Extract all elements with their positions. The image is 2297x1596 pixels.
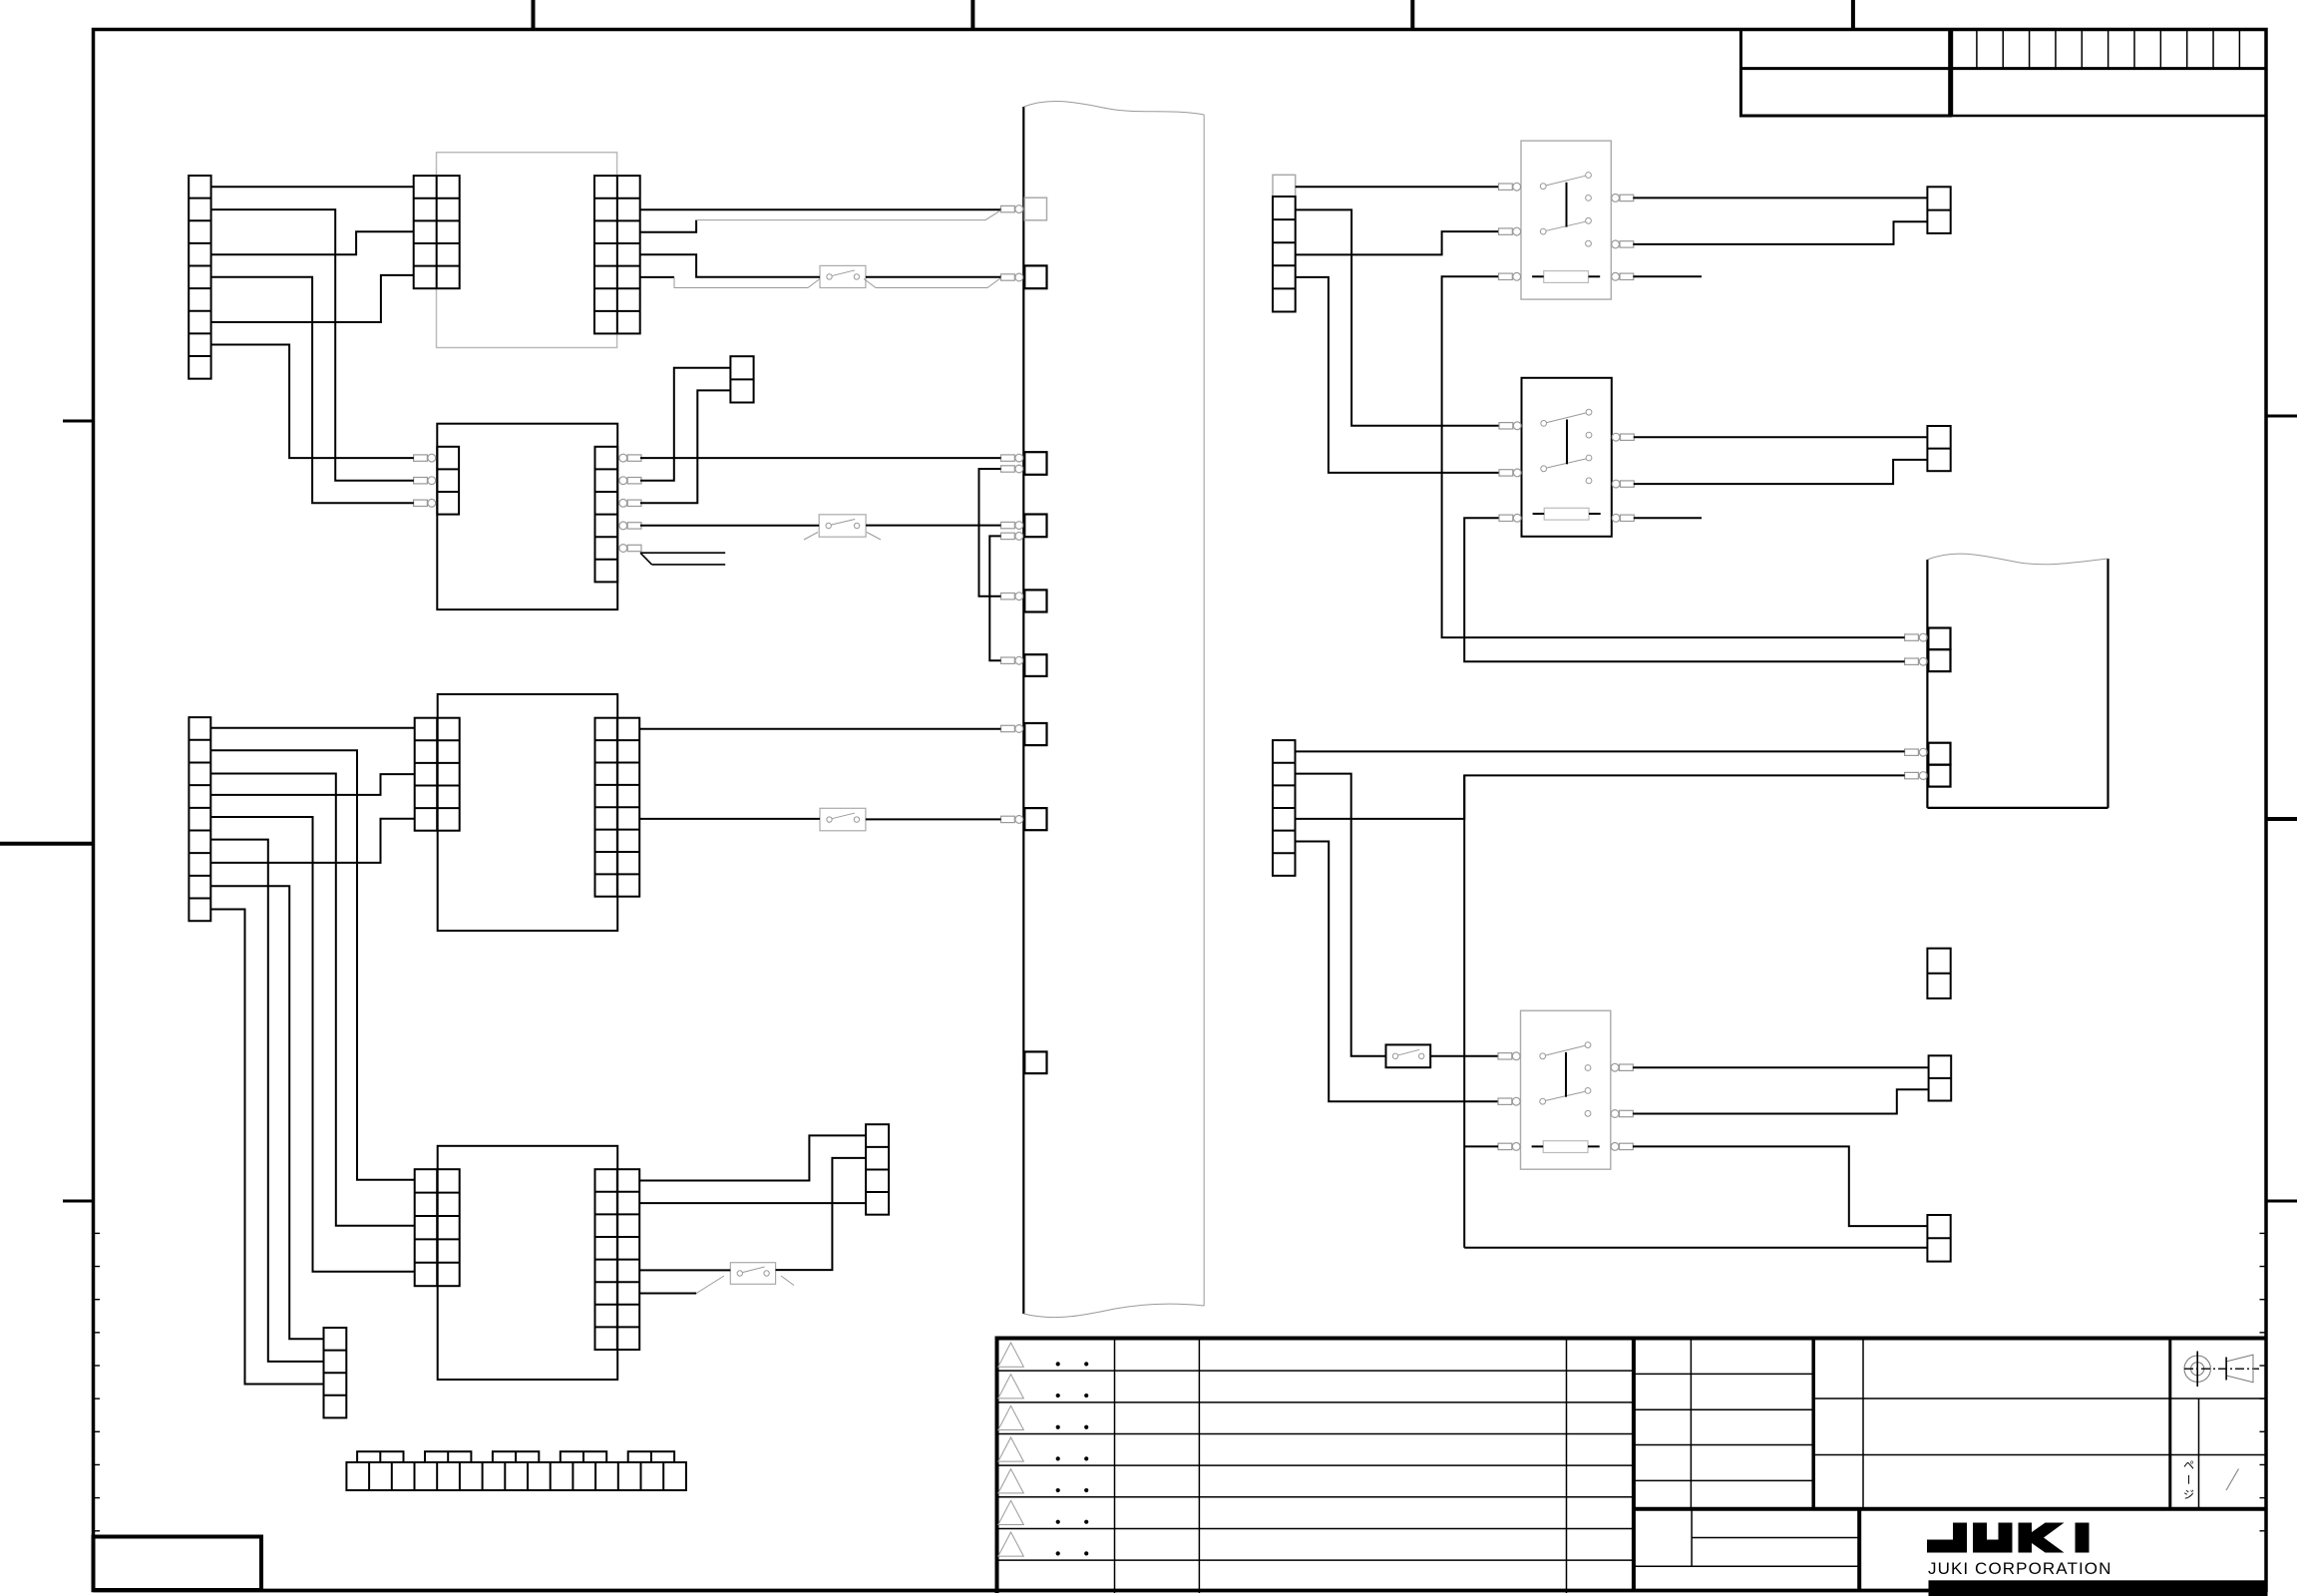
connector K1 (1x2)	[1927, 187, 1950, 233]
connector K2 (1x2)	[1927, 426, 1950, 471]
connector G (1x4)	[324, 1328, 347, 1417]
title section C row 2	[1634, 1565, 1859, 1567]
component B3 outline	[438, 694, 618, 931]
left tick center	[0, 842, 94, 846]
wire SA1.t3 to board pin u1	[1442, 276, 1905, 637]
connector B2-L pins (1x3)	[437, 447, 459, 515]
terminal B2 right t4	[619, 522, 627, 530]
wire B2.t4 to SW2	[640, 525, 819, 527]
terminal B2 right t2	[619, 477, 627, 485]
third-angle projection cone symbol	[2226, 1355, 2253, 1383]
revision date dots	[1056, 1362, 1060, 1366]
terminal SA1 right r3	[1612, 272, 1620, 280]
terminal SA2 right r3	[1612, 514, 1620, 522]
bus branch to SA3.t3	[1464, 1145, 1498, 1147]
shield wire gray right of SW-A	[864, 278, 1001, 288]
title section B row 2	[1813, 1454, 2266, 1456]
wire C2.8 down to G cell1	[210, 886, 323, 1339]
wire C2.4 jog to B3L cell3	[210, 774, 414, 795]
wire SA1.r3 stub	[1633, 275, 1702, 277]
wire C2.5 down to B5L cell5	[210, 817, 414, 1272]
bus branch to connector K5 bottom	[1464, 1247, 1927, 1249]
wire SA1.r1 to K1 top	[1633, 197, 1927, 199]
component B5 outline	[438, 1146, 618, 1380]
wire B2.t1 to pin p3a	[640, 457, 1001, 459]
wire col1.c1 to SA2.t1	[1296, 209, 1499, 425]
connector R2 (1x6)	[1273, 740, 1296, 876]
terminal B2 right t1	[619, 454, 627, 462]
terminal at board W2 pin u1	[1905, 634, 1919, 640]
bottom strip top cells	[357, 1451, 403, 1462]
shield slant left of SW5	[696, 1276, 724, 1294]
inline switch SW3	[820, 808, 866, 831]
cable W1 pin p9	[1024, 1051, 1046, 1073]
cable W1 pin p8	[1024, 808, 1046, 830]
terminal SA1 right r2	[1612, 240, 1620, 248]
cable W1 left edge	[1022, 107, 1024, 1314]
revision table left edge	[995, 1340, 999, 1594]
inline switch SW5	[730, 1263, 775, 1285]
wire col1 gray-cell to SA1.t1	[1296, 186, 1498, 188]
jumper pin p3b to p5	[979, 469, 1001, 597]
wire SW3 to pin p8	[866, 818, 1001, 820]
title section C divider	[1857, 1509, 1861, 1592]
svg-text:ペ: ペ	[2183, 1460, 2194, 1472]
terminal B2 right t5	[619, 545, 627, 553]
terminal SA2 right r2	[1612, 480, 1620, 488]
cable W1 pin p2	[1024, 265, 1046, 288]
shield slant left of SW2	[804, 533, 818, 541]
shield wire gray to pin p2	[674, 277, 820, 288]
connector H (1x4)	[866, 1124, 889, 1214]
no-connect pair slant	[640, 553, 652, 565]
terminal at board W2 pin l1	[1905, 749, 1919, 755]
title thick divider above JUKI	[1634, 1507, 2266, 1511]
wire B5.r2 to H cell4	[639, 1202, 866, 1204]
terminal SA3 left t1	[1498, 1053, 1512, 1059]
title section A right edge	[1811, 1339, 1815, 1509]
wire connector E top to B2.t2	[640, 368, 730, 481]
connector K3 (1x2)	[1927, 949, 1950, 998]
wire C1.4 to B1L cell3	[211, 231, 414, 254]
terminal at cable pin p3b	[1001, 466, 1015, 472]
revision table top edge	[995, 1337, 2267, 1341]
terminal at cable pin p3a	[1001, 455, 1015, 461]
wire col1.c3 to SA1.t2	[1296, 231, 1498, 254]
wire SA3.r2 to K4 bottom	[1633, 1089, 1929, 1113]
connector K5 (1x2)	[1927, 1215, 1950, 1262]
terminal SA3 left t2	[1498, 1098, 1512, 1104]
title projection box divider	[2198, 1398, 2200, 1509]
wire B1.r4 through SW-A to pin p2	[640, 254, 820, 276]
cable W1 pin p7	[1024, 723, 1046, 745]
top-right table divider row	[1741, 67, 2267, 70]
connector R1 gray top cell	[1273, 175, 1296, 197]
terminal SA3 right r1	[1611, 1063, 1619, 1071]
jumper pin p4b to p6	[989, 536, 1000, 660]
board W2 pin u1	[1928, 628, 1950, 650]
terminal B2 left t1	[414, 455, 428, 461]
terminal at cable pin p1	[1001, 205, 1015, 211]
title section C row 1	[1692, 1537, 1859, 1539]
wire SA1.r2 to K1 bottom	[1633, 221, 1927, 244]
terminal at cable pin p7	[1001, 725, 1015, 731]
board W2 top wave	[1927, 554, 2107, 565]
wire C1.5 to B2 left t3	[211, 277, 414, 504]
wire SA3.r1 to K4 top	[1633, 1066, 1929, 1068]
connector B5-L (2x5)	[415, 1169, 460, 1286]
black footer bar	[1929, 1580, 2268, 1596]
connector B1-L (2x5)	[414, 176, 460, 288]
terminal B2 left t2	[414, 478, 428, 484]
right tick upper	[2266, 415, 2297, 418]
terminal at cable pin p8	[1001, 816, 1015, 822]
cable W1 bottom wave	[1023, 1304, 1204, 1317]
wire SA3.r3 to K5 top	[1633, 1146, 1927, 1226]
wire SW5 to H cell2	[776, 1158, 867, 1270]
terminal SA1 left t2	[1499, 228, 1513, 234]
wire C2.7 jog to B3L cell5	[210, 819, 414, 863]
cable W1 pin p5	[1024, 590, 1046, 611]
title section A col divider	[1690, 1339, 1692, 1509]
wire SA2.r3 stub	[1634, 517, 1702, 519]
wire C1.2 to B2 left t2	[211, 209, 414, 481]
wire C1.8 to B2 left t1	[211, 345, 414, 459]
board W2 bottom edge	[1927, 807, 2107, 809]
revision table col divider 1	[1114, 1340, 1116, 1594]
cable W1 pin p1	[1024, 198, 1046, 220]
top registration tick 2	[970, 0, 974, 30]
wire SA2.r1 to K2 top	[1634, 436, 1928, 438]
cable W1 pin p4	[1024, 515, 1046, 538]
title section B inner divider	[1862, 1339, 1864, 1509]
connector B5-R (2x8)	[595, 1169, 640, 1350]
bottom border	[94, 1589, 2267, 1593]
title projection box left edge	[2168, 1339, 2171, 1509]
no-connect pair line2	[652, 564, 726, 566]
shield wire gray to pin p1	[696, 210, 1000, 220]
connector R1 (1x5)	[1273, 197, 1296, 312]
title section A rows	[1634, 1373, 1813, 1375]
board W2 pin l1	[1928, 743, 1950, 765]
cable W1 pin p3	[1024, 452, 1046, 475]
inline switch SW2	[819, 515, 866, 537]
revision table row lines	[997, 1370, 1634, 1372]
top registration tick 3	[1410, 0, 1414, 30]
terminal SA1 left t1	[1499, 184, 1513, 190]
top-right heavy column divider	[1948, 30, 1953, 117]
top-right table frame	[1741, 30, 1951, 117]
terminal SA1 left t3	[1499, 273, 1513, 279]
component B1 outline	[437, 153, 617, 348]
terminal at cable pin p4b	[1001, 533, 1015, 539]
connector B2-R pins (1x6)	[595, 447, 618, 583]
switch assembly SA3 (gray)	[1521, 1010, 1611, 1169]
bottom strip main row (1x15)	[346, 1462, 686, 1490]
wire C2.6 down to G cell2	[210, 840, 323, 1362]
terminal SA2 left t1	[1499, 423, 1513, 429]
switch assembly SA1 (gray)	[1521, 141, 1611, 299]
title section C col divider	[1691, 1509, 1693, 1566]
top registration tick 1	[532, 0, 536, 30]
right tick center	[2266, 817, 2297, 821]
revision table right edge	[1632, 1339, 1636, 1593]
wire SW4 to SA3.t1	[1430, 1055, 1497, 1057]
wire B5.r5 to SW5	[639, 1269, 730, 1271]
svg-text:JUKI CORPORATION: JUKI CORPORATION	[1928, 1559, 2111, 1578]
connector E (1x2)	[730, 356, 753, 402]
wire connector E bottom to B2.t3	[640, 390, 730, 503]
switch assembly SA2 (black)	[1522, 378, 1612, 537]
connector C2 (1x9)	[189, 717, 210, 921]
wire C2.1 to B3L cell1	[210, 727, 414, 729]
terminal B2 left t3	[414, 500, 428, 506]
terminal SA3 left t3	[1498, 1143, 1512, 1149]
bottom-left stamp box	[94, 1537, 262, 1591]
svg-text:ジ: ジ	[2183, 1489, 2194, 1501]
terminal at cable pin p2	[1001, 274, 1015, 280]
wire SW2 to pin p4a	[866, 525, 1000, 527]
connector B3-L (2x5)	[415, 718, 460, 831]
wire B1.r5 stub	[640, 276, 674, 278]
board W2 left edge	[1926, 560, 1928, 808]
terminal at cable pin p5	[1001, 594, 1015, 599]
terminal at cable pin p6	[1001, 657, 1015, 663]
revision triangles	[998, 1343, 1024, 1367]
top registration tick 4	[1851, 0, 1855, 30]
wire SA2.r2 to K2 bottom	[1634, 460, 1928, 484]
title section B row 1	[1813, 1397, 2266, 1399]
wire C1.1 to B1L cell1	[211, 186, 414, 188]
right ruler ticks	[2260, 1232, 2267, 1234]
revision table col divider 3	[1566, 1340, 1568, 1594]
wire C2.3 down to B5L cell3	[210, 774, 414, 1226]
scale bar cells	[1976, 30, 1978, 69]
shield slant right of SW2	[867, 533, 881, 541]
ground bus vertical	[1463, 775, 1465, 1247]
cable W1 top wave	[1023, 101, 1204, 115]
no-connect pair at B2.t5 line1	[640, 552, 725, 554]
connector B1-R (2x7)	[594, 176, 640, 333]
cable W1 right edge	[1203, 115, 1205, 1306]
wire C2.9 down to G cell3	[210, 910, 323, 1385]
terminal at board W2 pin l2	[1905, 772, 1919, 778]
JUKI logo	[1927, 1523, 1967, 1553]
wire col1.c4 to SA2.t2	[1296, 277, 1499, 473]
page number slash	[2226, 1469, 2239, 1491]
wire B1.r2 to cable pin p1	[640, 208, 1001, 210]
shield slant right of SW5	[781, 1276, 794, 1286]
left tick upper	[63, 420, 94, 423]
inline switch SW-A	[820, 265, 866, 287]
terminal SA2 right r1	[1612, 433, 1620, 441]
connector K4 (1x2)	[1929, 1055, 1952, 1100]
terminal B2 right t3	[619, 499, 627, 507]
wire col2.c2 to SW4	[1296, 774, 1386, 1056]
wire SA2.t3 to board pin u2	[1464, 518, 1904, 661]
wire B5.r1 to H cell1	[639, 1135, 866, 1180]
terminal SA1 right r1	[1612, 195, 1620, 202]
board W2 pin u2	[1928, 649, 1950, 671]
terminal at cable pin p4a	[1001, 522, 1015, 528]
wire B5.r6 stub	[639, 1293, 696, 1295]
component B2 outline	[437, 424, 617, 609]
wire col2.c5 to SA3.t2	[1296, 842, 1498, 1102]
wire SW-A to pin p2	[866, 276, 1001, 278]
connector C1 (1x9)	[189, 176, 210, 379]
left ruler ticks	[94, 1232, 101, 1234]
board W2 pin l2	[1928, 765, 1950, 787]
terminal SA2 left t2	[1499, 470, 1513, 476]
wire B3.r5 to SW3	[639, 818, 820, 820]
third-angle projection circle symbol	[2184, 1356, 2210, 1382]
terminal SA2 left t3	[1499, 515, 1513, 521]
wire C2.2 down to B5L cell1	[210, 750, 414, 1180]
terminal SA3 right r3	[1611, 1143, 1619, 1151]
wire B3.r1 to pin p7	[639, 728, 1000, 730]
wire col2.c4 to board pin l2	[1296, 775, 1905, 819]
connector B3-R (2x8)	[595, 718, 640, 897]
wire col2.c1 to board pin l1	[1296, 750, 1905, 752]
wire B1.r3 jog	[640, 220, 696, 232]
revision table col divider 2	[1198, 1340, 1200, 1594]
board W2 right edge	[2106, 559, 2108, 808]
inline switch SW4 (black box)	[1386, 1044, 1431, 1067]
terminal at board W2 pin u2	[1905, 658, 1919, 664]
top-right table bottom edge	[1951, 115, 2266, 118]
terminal SA3 right r2	[1611, 1110, 1619, 1118]
left tick lower	[63, 1200, 94, 1203]
cable W1 pin p6	[1024, 654, 1046, 676]
wire C1.7 to B1L cell5	[211, 275, 414, 322]
svg-text:ー: ー	[2182, 1474, 2194, 1485]
right tick lower	[2266, 1200, 2297, 1203]
